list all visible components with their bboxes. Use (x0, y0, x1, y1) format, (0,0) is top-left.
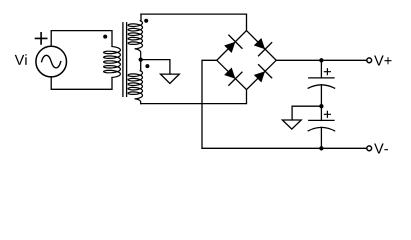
junction dot bottom rail (319, 146, 323, 150)
wire source bottom to primary bottom (51, 77, 112, 89)
diode D4 (bottom to right) (251, 65, 272, 86)
transformer secondary upper winding (128, 21, 142, 49)
diode D3 (left to bottom) (221, 65, 242, 86)
wire bridge left vertex to bottom rail (202, 60, 217, 148)
junction dot mid node (319, 104, 323, 108)
terminal V+ circle (367, 58, 372, 63)
capacitor C1 bottom lead (320, 85, 322, 106)
wire mid node to ground (292, 106, 321, 120)
ground symbol at center tap (161, 74, 180, 83)
capacitor C2 curved plate (308, 127, 334, 130)
wire center tap to ground (141, 60, 170, 75)
capacitor C1 plus label (324, 69, 330, 75)
secondary lower winding exit lead (135, 99, 140, 104)
diode D1 (left to top) (221, 35, 242, 56)
capacitor C1 curved plate (308, 85, 334, 88)
secondary upper winding exit to center tap (135, 49, 140, 60)
capacitor C2 positive lead (320, 106, 322, 120)
transformer secondary lower winding (128, 71, 142, 99)
wire bridge right vertex to V+ terminal (276, 59, 366, 61)
capacitor C2 plus label (324, 111, 330, 117)
plus sign of source Vi (36, 33, 47, 44)
bridge diamond wires (217, 31, 276, 90)
label V+ (374, 56, 391, 66)
AC source Vi circle (36, 46, 67, 77)
center tap junction dot (139, 57, 143, 61)
primary polarity dot (103, 35, 107, 39)
label V- (374, 144, 388, 154)
transformer primary winding (104, 47, 121, 78)
wire source top to primary top (51, 31, 112, 47)
label Vi (15, 54, 27, 65)
junction dot V+ rail (319, 58, 323, 62)
secondary lower polarity dot (145, 64, 149, 68)
capacitor C2 bottom lead (320, 127, 322, 148)
bottom rail wire to V- terminal (202, 147, 366, 149)
diode D2 (top to right) (251, 35, 272, 56)
secondary top polarity dot (144, 19, 148, 23)
secondary lower winding leads (140, 60, 142, 71)
capacitor C2 top plate (309, 119, 334, 121)
ground symbol at mid node (282, 120, 301, 129)
AC source sine wave (42, 55, 61, 68)
secondary upper winding leads (140, 14, 142, 20)
transformer core (123, 23, 127, 97)
wire secondary top to bridge top (141, 14, 247, 31)
capacitor C1 positive lead (320, 60, 322, 78)
terminal V- circle (367, 146, 372, 151)
capacitor C1 top plate (309, 77, 334, 79)
wire secondary bottom to bridge bottom (141, 90, 247, 104)
